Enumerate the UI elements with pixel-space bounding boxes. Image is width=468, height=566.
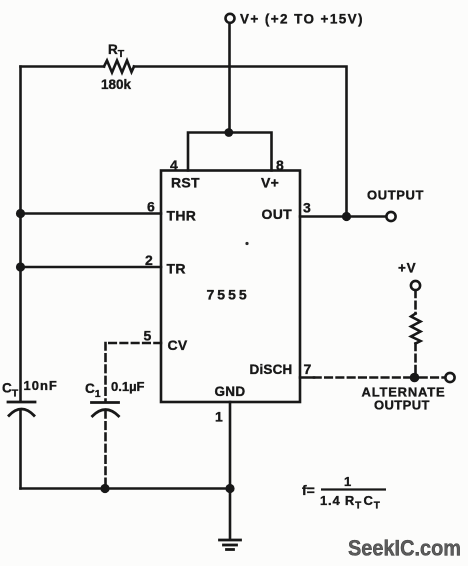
svg-text:0.1µF: 0.1µF [111,379,145,394]
svg-text:2: 2 [145,252,153,268]
capacitor CT plates [8,402,35,416]
svg-text:RST: RST [171,175,200,191]
wire C1 bottom dashed to bus [104,411,107,486]
node junction dot OUT [342,212,351,221]
svg-text:10nF: 10nF [24,378,58,393]
node junction dot TR/left rail [16,262,25,271]
wire DISCH pin7 stub [300,376,314,379]
svg-text:180k: 180k [101,77,132,92]
node OUTPUT terminal circle [386,212,395,221]
node +V terminal circle [411,281,420,290]
svg-text:DiSCH: DiSCH [250,362,293,377]
capacitor C1 plates [92,403,119,417]
wire RT right side to output drop corner [134,67,347,217]
wire GND pin down to bus [229,402,232,539]
svg-text:OUTPUT: OUTPUT [374,398,430,413]
wire THR horizontal [21,212,162,215]
svg-text:TR: TR [167,261,186,277]
wire OUT pin3 to output terminal [300,215,387,218]
resistor RT zigzag [104,61,134,73]
node junction dot on bracket [224,128,233,137]
svg-text:OUT: OUT [262,206,293,222]
svg-text:V+ (+2 TO +15V): V+ (+2 TO +15V) [240,12,364,27]
svg-text:SeekIC.com: SeekIC.com [348,536,461,561]
resistor pullup zigzag [411,314,421,344]
wire dashed dot to terminal [420,376,444,379]
svg-text:7: 7 [304,361,312,377]
svg-text:V+: V+ [261,175,279,191]
svg-text:+V: +V [398,261,417,276]
wire TR horizontal [21,266,162,269]
op-amp U1 7555 IC body [161,171,300,403]
wire dashed resistor to junction [414,344,417,374]
wire left rail top horizontal (RT row, left of resistor) [21,65,105,68]
wire pin4-pin8 bracket [188,133,272,171]
node junction dot THR/left rail [16,209,25,218]
wire DISCH dashed to alternate output [314,376,409,379]
svg-text:4: 4 [170,157,178,173]
wire left rail vertical [19,67,22,402]
node junction dot alternate output [410,373,420,383]
node V+ terminal circle [226,14,235,23]
svg-text:CV: CV [168,337,188,353]
wire CT bottom to bus [19,410,22,489]
svg-text:3: 3 [303,200,311,216]
wire CV dashed branch to C1 [106,343,162,402]
wire V+ terminal down to pin4/8 bracket [228,23,231,132]
svg-text:6: 6 [147,199,155,215]
svg-text:THR: THR [167,208,197,224]
svg-text:f=: f= [302,482,315,498]
svg-text:1: 1 [215,409,223,425]
ground symbol [220,540,241,550]
svg-text:7555: 7555 [207,287,250,303]
wire +V dashed down to pullup resistor [414,291,417,314]
node ALTERNATE OUTPUT terminal circle [445,373,454,382]
wire ground bus horizontal [21,487,231,490]
svg-text:5: 5 [144,328,152,344]
svg-text:OUTPUT: OUTPUT [367,188,424,203]
node junction dot C1/bus [100,484,109,493]
svg-text:GND: GND [215,384,246,399]
svg-text:1: 1 [344,474,351,489]
svg-text:8: 8 [276,157,284,173]
node junction dot GND/bus [225,484,234,493]
